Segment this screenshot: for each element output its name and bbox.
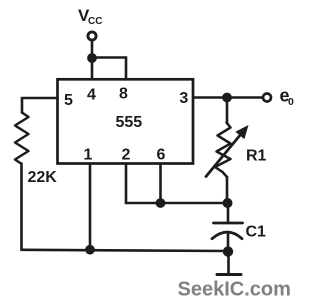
Vcc terminal circle — [88, 32, 96, 40]
pin 2 label — [122, 146, 131, 163]
IC 555 timer box — [58, 79, 194, 163]
svg-text:CC: CC — [88, 16, 102, 27]
svg-text:5: 5 — [64, 92, 73, 109]
resistor R1 zigzag (variable) — [215, 123, 231, 178]
node e0 label — [280, 85, 295, 108]
wire pin 3 to output — [193, 96, 262, 99]
wire bottom rail — [22, 250, 229, 251]
junction Vcc node — [87, 53, 97, 63]
wire mid node to C1 top plate — [227, 203, 230, 223]
svg-text:555: 555 — [115, 114, 142, 131]
wire pin 1 down — [89, 164, 92, 250]
wire pin 2 down and right — [126, 164, 228, 204]
watermark SeekIC.com — [178, 279, 291, 301]
svg-text:2: 2 — [122, 146, 131, 163]
pin 8 label — [119, 85, 128, 102]
wire output node down to R1 — [226, 98, 229, 124]
pin 6 label — [157, 146, 166, 163]
svg-text:0: 0 — [288, 96, 294, 108]
22K value label — [28, 169, 58, 186]
C1 reference label — [246, 224, 267, 241]
junction pin6 / mid wire — [156, 198, 166, 208]
wire Vcc node to pin 8 — [92, 58, 126, 80]
555 value label — [115, 114, 142, 131]
svg-text:3: 3 — [179, 90, 188, 107]
wire bottom rail node to ground — [227, 252, 230, 275]
capacitor C1 top plate — [214, 222, 243, 225]
pin 3 label — [179, 90, 188, 107]
svg-text:22K: 22K — [28, 169, 58, 186]
wire C1 bottom to bottom rail — [227, 233, 230, 252]
junction C1 / bottom rail — [223, 246, 233, 256]
resistor 22K zigzag — [15, 113, 29, 164]
svg-text:8: 8 — [119, 85, 128, 102]
output terminal circle — [263, 94, 271, 102]
node Vcc label — [78, 6, 102, 27]
wire Vcc terminal to pin 4 — [91, 41, 94, 80]
svg-text:6: 6 — [157, 146, 166, 163]
svg-text:1: 1 — [84, 146, 93, 163]
junction mid node (R1/C1/pins 2-6) — [223, 198, 233, 208]
pin 4 label — [87, 86, 96, 103]
svg-text:C1: C1 — [246, 224, 267, 241]
junction pin1 / bottom rail — [85, 245, 95, 255]
pin 1 label — [84, 146, 93, 163]
pin 5 label — [64, 92, 73, 109]
svg-text:4: 4 — [87, 86, 96, 103]
wire resistor bottom to ground rail — [20, 164, 23, 250]
ground — [217, 273, 241, 276]
wire pin 5 to left rail — [22, 98, 58, 113]
wire R1 bottom to mid node — [226, 177, 229, 203]
junction output node — [222, 93, 232, 103]
svg-text:SeekIC.com: SeekIC.com — [178, 279, 291, 301]
wire pin 6 down — [159, 164, 162, 204]
svg-text:R1: R1 — [246, 148, 267, 165]
R1 wiper arrow — [206, 125, 249, 177]
capacitor C1 curved plate — [212, 232, 242, 239]
R1 reference label — [246, 148, 267, 165]
